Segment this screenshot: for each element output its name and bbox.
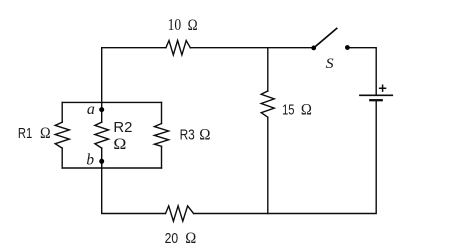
svg-text:R3: R3 (180, 126, 195, 143)
svg-text:b: b (86, 151, 94, 168)
svg-text:15: 15 (282, 101, 294, 118)
wire left branch lower lead (61, 148, 63, 168)
wire bottom-left (from 20-ohm resistor left to corner, up to node b) (102, 161, 166, 214)
switch S arm (open blade) (314, 28, 337, 48)
resistor R3 (vertical zigzag, right branch) (154, 124, 168, 147)
node a junction dot (99, 107, 104, 112)
resistor R1 (vertical zigzag, left branch) (55, 122, 69, 148)
resistor 20 ohm (zigzag on bottom wire) (166, 206, 194, 221)
svg-text:Ω: Ω (301, 101, 312, 118)
svg-text:a: a (87, 101, 95, 118)
wire right branch upper lead (161, 102, 163, 123)
svg-text:Ω: Ω (40, 125, 51, 142)
svg-text:Ω: Ω (199, 126, 210, 143)
wire from battery bottom to bottom-right corner and left to 20-ohm resistor (194, 100, 377, 213)
node b junction dot (99, 159, 104, 164)
svg-text:S: S (326, 56, 334, 72)
wire right branch lower lead (161, 146, 163, 168)
battery plus sign (379, 85, 386, 92)
wire left branch upper lead (61, 102, 63, 122)
svg-text:R2: R2 (113, 119, 132, 136)
switch left contact dot (311, 46, 316, 51)
svg-text:Ω: Ω (113, 136, 126, 153)
resistor 10 ohm (zigzag on top wire) (166, 41, 190, 55)
battery positive plate (long) (360, 94, 392, 96)
wire middle branch to node b (101, 148, 103, 168)
svg-text:20: 20 (165, 230, 179, 247)
wire from 10-ohm resistor to switch left contact (190, 47, 313, 49)
wire parallel-box top bus (62, 101, 161, 103)
battery negative plate (short) (370, 99, 381, 101)
svg-text:Ω: Ω (188, 17, 198, 34)
wire parallel-box bottom bus (62, 167, 161, 169)
wire middle branch lower (15-ohm resistor down to bottom wire) (267, 117, 269, 213)
svg-text:Ω: Ω (185, 230, 196, 247)
svg-text:10: 10 (168, 15, 182, 34)
wire from switch right contact to battery top (347, 48, 376, 95)
switch right contact dot (345, 45, 350, 50)
wire middle branch through node a (101, 102, 103, 122)
svg-text:R1: R1 (18, 125, 32, 142)
resistor R2 (vertical zigzag, middle branch of box) (95, 122, 109, 148)
resistor 15 ohm (vertical zigzag, middle branch) (261, 91, 274, 117)
wire middle branch upper (top wire junction down to 15-ohm resistor) (267, 48, 269, 91)
wire top-left (from node a vertical up, then right to 10-ohm resistor) (102, 48, 166, 103)
